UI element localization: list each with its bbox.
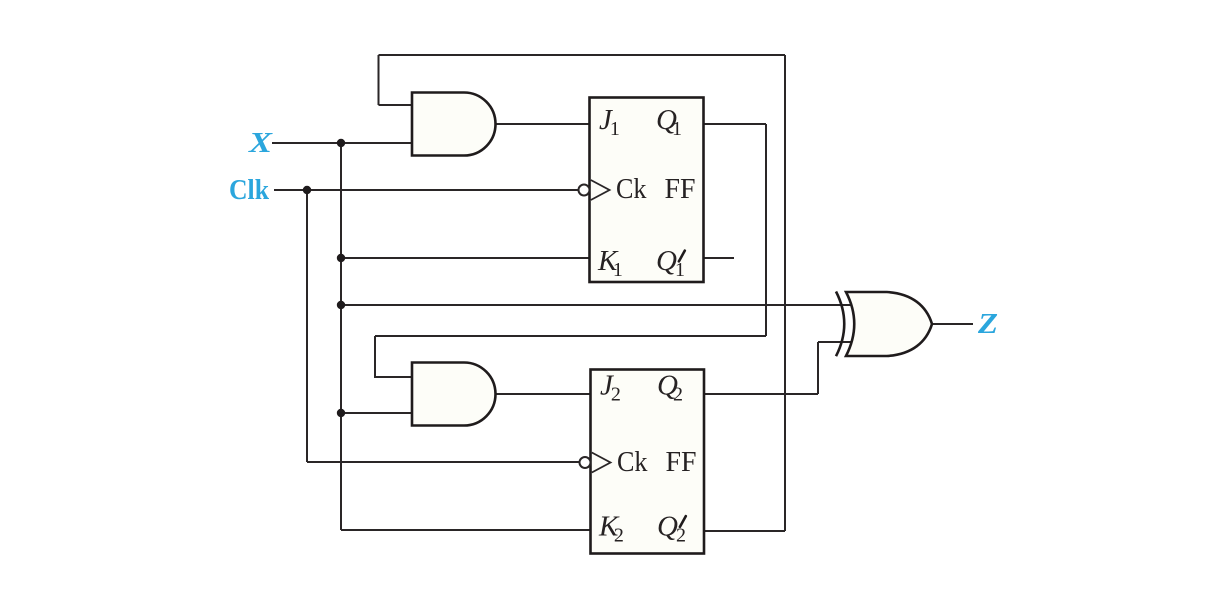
wire Q1 vertical down <box>765 124 767 336</box>
FF2 Q2' prime mark <box>680 516 686 527</box>
wire AND2 output to J2 <box>494 393 591 395</box>
wire Q2' feedback top horizontal <box>379 54 786 56</box>
svg-text:Z: Z <box>977 309 998 340</box>
wire Q2' feedback vertical <box>784 55 786 531</box>
svg-text:X: X <box>248 128 274 159</box>
FF2 clock triangle <box>592 453 611 473</box>
wire Q2' feedback stub <box>704 530 786 532</box>
wire K1 input <box>341 257 590 259</box>
node Clk junction <box>303 186 311 194</box>
XOR extra input arc <box>836 292 844 357</box>
svg-text:FF: FF <box>665 173 696 205</box>
wire Q1 horizontal to AND2 <box>375 335 766 337</box>
wire Q1' stub <box>704 257 735 259</box>
svg-text:FF: FF <box>666 446 697 478</box>
node X junction at AND2 row <box>337 409 345 417</box>
wire Clk vertical bus <box>306 190 308 462</box>
node X junction at K1 row <box>337 254 345 262</box>
xor-gate Z <box>836 292 932 357</box>
wire Q2 output <box>704 393 819 395</box>
svg-text:Clk: Clk <box>229 174 270 206</box>
wire AND1 output to J1 <box>496 123 590 125</box>
XOR body <box>846 292 932 356</box>
jk flip-flop FF2 box <box>591 370 705 554</box>
wire X to AND2 lower input <box>341 412 412 414</box>
wire into AND1 upper input <box>379 104 413 106</box>
and-gate A2 <box>412 363 496 426</box>
wire X vertical bus <box>340 143 342 530</box>
wire K2 input <box>341 529 591 531</box>
wire XOR output to Z <box>932 323 973 325</box>
wire Clk to FF2 Ck <box>307 461 579 463</box>
FF1 clock bubble <box>579 185 590 196</box>
and-gate A1 <box>412 93 496 156</box>
wire into AND2 upper input <box>375 336 412 377</box>
svg-text:Ck: Ck <box>617 446 648 478</box>
node X junction on input row <box>337 139 345 147</box>
FF2 clock bubble <box>580 457 591 468</box>
wire feedback down to AND1 <box>378 55 380 105</box>
FF1 clock triangle <box>591 180 610 200</box>
wire Clk input <box>274 189 578 191</box>
node X junction at XOR row <box>337 301 345 309</box>
wire X input <box>272 142 412 144</box>
wire Q2 vertical up <box>817 342 819 394</box>
FF1 Q1' prime mark <box>679 251 685 262</box>
wire Q1 output <box>704 123 767 125</box>
wire Q2 to XOR bottom input <box>818 341 851 343</box>
jk flip-flop FF1 box <box>590 98 704 283</box>
svg-text:Ck: Ck <box>616 173 647 205</box>
wire X to XOR top input <box>341 304 851 306</box>
